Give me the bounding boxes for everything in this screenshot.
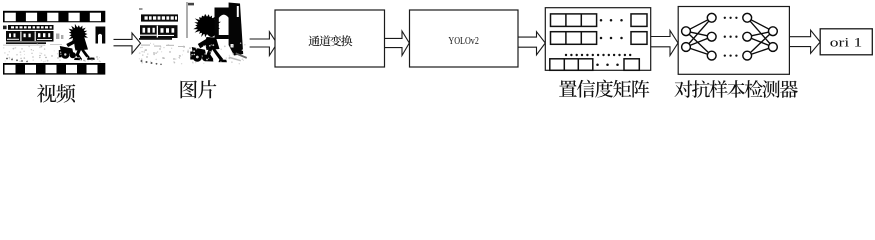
- arrow from confidence matrix to detector: [651, 31, 678, 56]
- arrow from picture to channel-transform box: [250, 32, 277, 56]
- matrix row 2: [551, 32, 648, 45]
- label 视频 (video): [37, 84, 75, 103]
- arrow from video to picture: [114, 33, 141, 54]
- matrix row 1: [551, 14, 648, 27]
- label 置信度矩阵: [559, 80, 649, 98]
- label 对抗样本检测器: [675, 80, 798, 98]
- arrow from detector to output box: [789, 30, 820, 53]
- matrix row 3: [550, 59, 640, 71]
- arrow from YOLOv2 to confidence matrix: [518, 32, 545, 55]
- arrow from channel-transform to YOLOv2: [385, 31, 410, 55]
- box 对抗样本检测器 (adversarial sample detector) with neural net: [678, 7, 789, 75]
- film strip top sprocket band: [3, 11, 105, 22]
- svg-text:YOLOv2: YOLOv2: [448, 35, 479, 47]
- svg-text:ori 1: ori 1: [830, 35, 863, 49]
- box YOLOv2: [410, 10, 519, 67]
- box 置信度矩阵 (confidence matrix): [545, 8, 650, 71]
- box 通道变换 (channel transform): [275, 10, 385, 67]
- output box "ori 1": [820, 29, 872, 55]
- label 图片 (picture): [180, 80, 216, 98]
- matrix ellipsis dots row: [565, 54, 632, 56]
- picture photo: street scene: [139, 2, 247, 65]
- film strip bottom sprocket band: [3, 63, 105, 75]
- video frame photo: street scene: [3, 24, 105, 63]
